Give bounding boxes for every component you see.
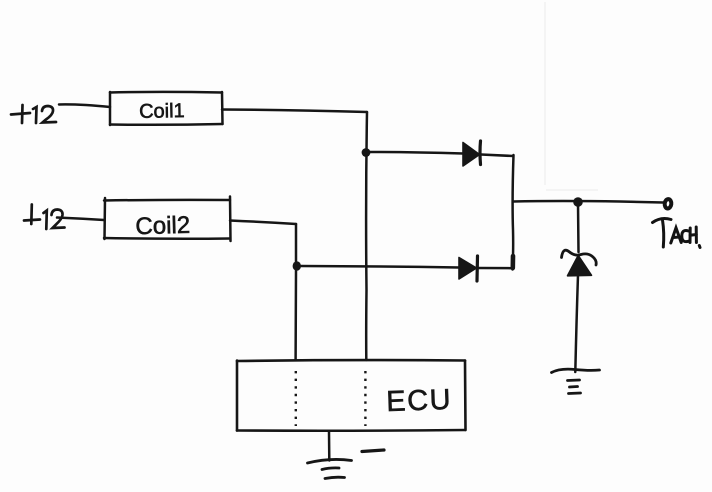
svg-text:Coil1: Coil1 (139, 100, 185, 123)
svg-text:ECU: ECU (386, 384, 453, 418)
svg-text:Coil2: Coil2 (135, 212, 190, 240)
